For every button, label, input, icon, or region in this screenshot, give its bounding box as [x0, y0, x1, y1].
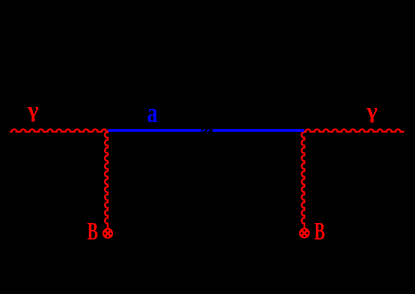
- svg-text:γ: γ: [366, 98, 378, 123]
- svg-text:B: B: [314, 219, 325, 246]
- svg-text:B: B: [87, 219, 98, 246]
- svg-text:a: a: [147, 98, 158, 129]
- svg-text:γ: γ: [27, 97, 39, 122]
